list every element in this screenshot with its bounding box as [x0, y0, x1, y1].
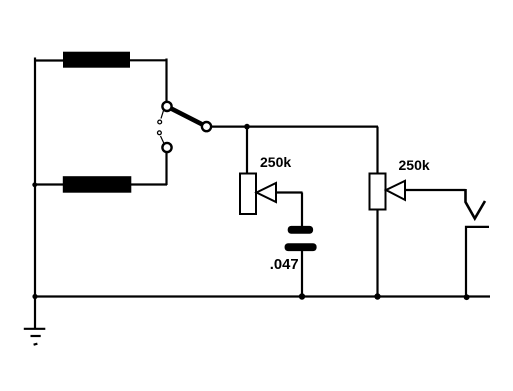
svg-text:.047: .047 — [270, 257, 299, 273]
svg-text:250k: 250k — [399, 157, 430, 173]
svg-text:250k: 250k — [260, 154, 291, 170]
